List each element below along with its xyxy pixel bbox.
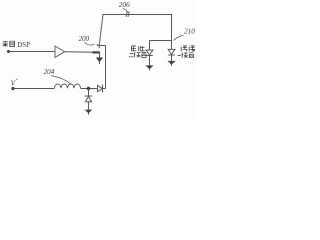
node: input from DSP (7, 50, 10, 53)
wire: top rail (102, 14, 172, 16)
node: junction at bias tee (87, 87, 90, 90)
ground: below transistor emitter (96, 58, 103, 65)
diode D1 clamp diode (146, 50, 153, 65)
transistor Q1 (200) (93, 44, 106, 58)
diode D3 series bias diode (98, 85, 103, 93)
label: clamp diode text line2 (二极管) (129, 52, 146, 57)
diode D2 microwave diode (210) (168, 49, 175, 61)
label: microwave diode text line2 (二极管) (178, 53, 194, 58)
svg-text:DSP: DSP (17, 41, 30, 49)
wire: junction down to shunt diode (88, 89, 90, 96)
wire: buffer output to transistor base (65, 51, 96, 54)
wire: right rail down from top (171, 15, 173, 50)
wire: clamp diode drop (149, 41, 151, 50)
wire: D3 to rail corner (103, 88, 106, 90)
svg-text:+: + (15, 77, 18, 83)
op-amp U1 buffer driver (55, 46, 65, 57)
leader: 204 to L1 (51, 76, 71, 84)
inductor L1 (204) (55, 84, 81, 88)
wire: collector riser to top rail (99, 15, 103, 49)
svg-text:210: 210 (184, 28, 195, 36)
diode D4 shunt diode (85, 96, 92, 110)
wire: branch to clamp diode (150, 40, 172, 42)
svg-text:206: 206 (119, 0, 130, 9)
wire: right vertical rail (collector node down to bottom) (105, 46, 107, 89)
label: clamp diode text line1 (钳位) (131, 46, 144, 51)
svg-text:200: 200 (79, 35, 90, 43)
wire: V+ to inductor (13, 88, 55, 90)
leader: 210 to microwave diode (174, 35, 184, 40)
wire: inductor to junction (81, 88, 98, 90)
wire: DSP input to buffer (9, 51, 56, 53)
ground: under microwave diode (167, 61, 175, 66)
leader: 206 to C1 (123, 9, 128, 13)
node: V+ supply (11, 87, 14, 90)
label: 来自 DSP (from DSP) pseudo-glyphs (2, 41, 14, 47)
capacitor C1 (206) (126, 11, 129, 17)
label: microwave diode text line1 (微波) (181, 46, 195, 52)
svg-text:204: 204 (44, 68, 55, 76)
ground: under shunt diode (85, 110, 93, 115)
leader: 200 to Q1 (85, 42, 95, 45)
ground: under clamp diode (145, 65, 153, 70)
